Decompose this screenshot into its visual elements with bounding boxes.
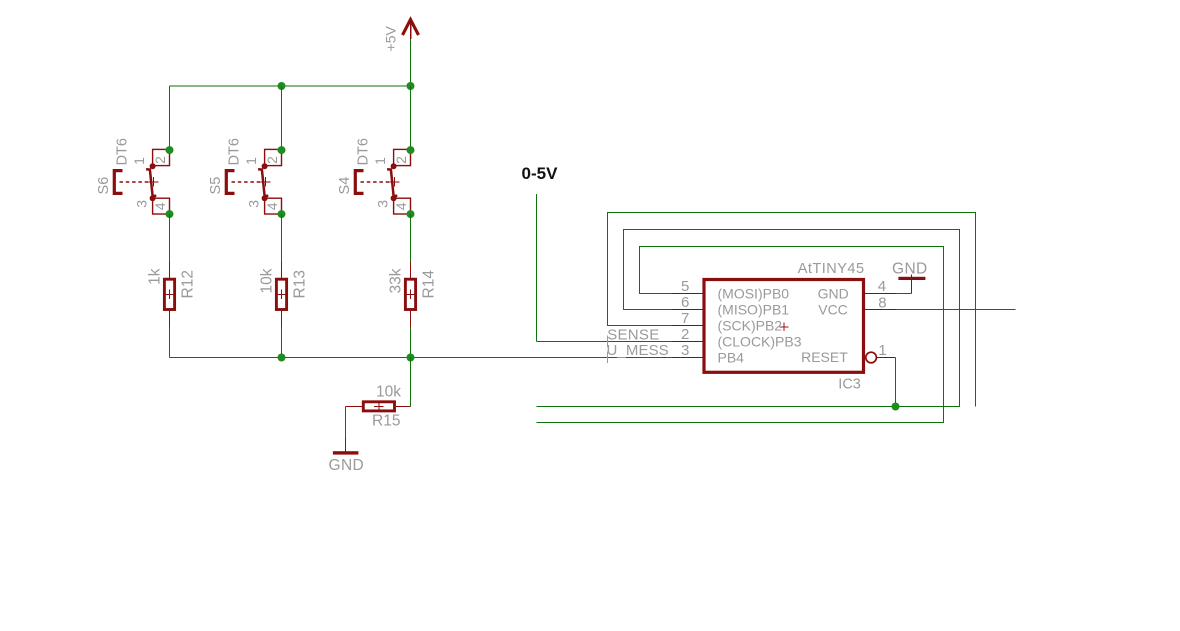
wire top bus to S6 <box>169 86 171 150</box>
wire net to pin 7 (outer loop) <box>608 213 976 407</box>
pin 2 (CLOCK)PB3 <box>672 326 802 350</box>
svg-text:S5: S5 <box>208 177 224 195</box>
svg-text:DT6: DT6 <box>355 138 371 165</box>
wire 0-5V vertical <box>536 194 538 342</box>
svg-text:1: 1 <box>131 157 147 165</box>
svg-text:3: 3 <box>246 200 262 208</box>
svg-text:GND: GND <box>818 286 849 302</box>
wire RESET down to net <box>895 358 897 407</box>
svg-text:10k: 10k <box>259 268 276 293</box>
resistor R14 33k <box>388 262 438 327</box>
svg-text:1: 1 <box>372 157 388 165</box>
pin 4 GND <box>818 278 896 301</box>
node U_MESS label <box>607 342 669 363</box>
svg-text:3: 3 <box>134 200 150 208</box>
svg-text:IC3: IC3 <box>838 376 861 392</box>
wire +5V vertical <box>410 39 412 86</box>
wire R14 top lead <box>410 214 412 262</box>
svg-text:4: 4 <box>264 202 280 210</box>
svg-text:GND: GND <box>329 457 365 474</box>
svg-text:(MISO)PB1: (MISO)PB1 <box>718 301 790 317</box>
pin 3 PB4 <box>672 342 744 366</box>
svg-text:PB4: PB4 <box>718 349 745 365</box>
wire net to pin 5 (inner loop) <box>537 247 944 423</box>
resistor R13 10k <box>259 262 309 327</box>
svg-text:10k: 10k <box>376 384 401 401</box>
wire R15 to ground <box>345 407 347 438</box>
wire SENSE to IC pin 2 <box>537 341 673 343</box>
svg-text:3: 3 <box>681 342 689 359</box>
svg-text:5: 5 <box>681 278 689 295</box>
svg-text:7: 7 <box>681 310 689 327</box>
wire main bus U_MESS to IC pin 3 <box>170 357 673 359</box>
op-amp/IC U1: IC3 AtTINY45 body <box>704 261 865 392</box>
svg-text:+5V: +5V <box>383 25 399 51</box>
pin 6 (MISO)PB1 <box>672 294 789 318</box>
svg-text:1: 1 <box>878 342 886 359</box>
resistor R12 1k <box>147 262 197 327</box>
IC origin cross (after (SCK)PB2) <box>779 323 788 332</box>
wire R12 bottom lead <box>169 327 171 358</box>
svg-text:4: 4 <box>878 278 886 295</box>
svg-text:S6: S6 <box>96 177 112 195</box>
wire top bus to S5 <box>281 86 283 150</box>
wire top bus to S4 <box>410 86 412 150</box>
junction dot bus / R13 <box>278 354 286 362</box>
svg-text:3: 3 <box>375 200 391 208</box>
resistor R15 10k <box>346 384 411 430</box>
pin 7 (SCK)PB2 <box>672 310 782 334</box>
svg-text:AtTINY45: AtTINY45 <box>798 261 865 277</box>
junction dot RESET / pin-6 net <box>892 403 900 411</box>
switch S6 (DT6) <box>96 138 174 218</box>
svg-text:1: 1 <box>243 157 259 165</box>
wire top bus horizontal <box>170 85 411 87</box>
svg-text:0-5V: 0-5V <box>522 164 559 183</box>
svg-text:RESET: RESET <box>801 349 848 365</box>
svg-text:(CLOCK)PB3: (CLOCK)PB3 <box>718 333 802 349</box>
svg-text:S4: S4 <box>337 177 353 195</box>
junction dot top bus / S5 <box>278 82 286 90</box>
svg-text:(SCK)PB2: (SCK)PB2 <box>718 317 783 333</box>
svg-text:R13: R13 <box>292 270 309 298</box>
svg-text:4: 4 <box>393 202 409 210</box>
svg-text:1k: 1k <box>147 268 164 285</box>
svg-text:R15: R15 <box>372 413 400 430</box>
svg-text:R14: R14 <box>421 270 438 299</box>
wire pin 4 to ground symbol <box>896 293 912 295</box>
switch S5 (DT6) <box>208 138 286 218</box>
node SENSE label <box>607 326 659 347</box>
svg-text:6: 6 <box>681 294 689 311</box>
wire R12 top lead <box>169 214 171 262</box>
pin 1 RESET with inversion bubble <box>801 342 895 365</box>
svg-text:DT6: DT6 <box>226 138 242 165</box>
svg-text:2: 2 <box>152 156 168 164</box>
ground GND (at IC pin 4) <box>892 260 928 293</box>
svg-text:2: 2 <box>264 156 280 164</box>
switch S4 (DT6) <box>337 138 415 218</box>
power +5V symbol <box>383 20 419 52</box>
svg-text:U_MESS: U_MESS <box>607 342 669 359</box>
wire R14 bottom lead <box>410 327 412 358</box>
svg-text:8: 8 <box>878 294 886 311</box>
wire VCC net <box>896 309 1016 311</box>
wire bus down to R15 <box>410 358 412 407</box>
svg-text:33k: 33k <box>388 268 405 293</box>
ground GND (below R15) <box>329 438 365 474</box>
svg-text:4: 4 <box>152 202 168 210</box>
svg-text:DT6: DT6 <box>114 138 130 165</box>
svg-text:2: 2 <box>393 156 409 164</box>
wire R13 top lead <box>281 214 283 262</box>
pin 8 VCC <box>818 294 896 317</box>
wire R13 bottom lead <box>281 327 283 358</box>
svg-text:SENSE: SENSE <box>607 326 659 343</box>
junction dot bus / R14 / R15 branch <box>407 354 415 362</box>
junction dot top bus / +5V / S4 <box>407 82 415 90</box>
pin 5 (MOSI)PB0 <box>672 278 789 302</box>
svg-text:VCC: VCC <box>818 302 848 318</box>
wire net to pin 6 (middle loop) <box>537 230 960 407</box>
svg-text:GND: GND <box>892 260 928 277</box>
svg-text:(MOSI)PB0: (MOSI)PB0 <box>718 285 790 301</box>
svg-text:R12: R12 <box>180 270 197 298</box>
svg-text:2: 2 <box>681 326 689 343</box>
